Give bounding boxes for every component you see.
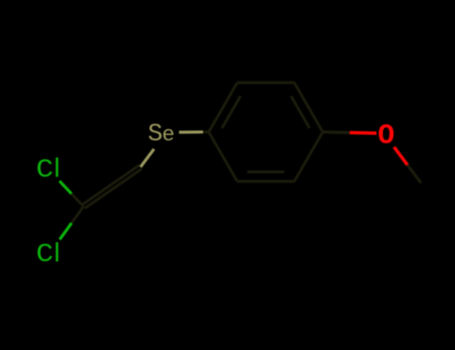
ring inner double line C5-C6 xyxy=(291,96,310,128)
double bond C1=C2 line B xyxy=(82,165,139,205)
double bond C1=C2 line A xyxy=(85,169,142,209)
ring inner double line C7-C8 xyxy=(247,171,284,174)
bond O-C9 methyl half (dark) xyxy=(408,165,422,183)
atom label Cl1: l glyph (plain bar) xyxy=(56,158,58,177)
ring edge C8-C3 (lower-left) xyxy=(209,132,238,181)
bond C2-Se (olive, full) xyxy=(141,149,155,167)
svg-text:e: e xyxy=(162,124,175,147)
svg-text:C: C xyxy=(36,154,54,184)
bond C1-Cl1 chlorine half (green) xyxy=(60,181,72,194)
bond Se-C3 carbon stub (dark) xyxy=(203,131,209,134)
ring edge C6-C7 (lower-right) xyxy=(294,132,323,181)
ring inner double line C3-C4 xyxy=(222,96,241,128)
svg-text:C: C xyxy=(36,239,54,269)
ring edge C4-C5 (top) xyxy=(237,81,294,84)
bond C6-O oxygen half (red) xyxy=(350,131,377,135)
svg-text:O: O xyxy=(378,121,395,152)
svg-text:S: S xyxy=(148,119,163,148)
bond C6-O carbon half (dark) xyxy=(323,131,350,135)
ring edge C7-C8 (bottom) xyxy=(237,180,294,183)
bond C1-Cl1 carbon half (dark) xyxy=(72,194,84,207)
ring edge C3-C4 (upper-left) xyxy=(209,83,238,132)
bond C1-Cl2 carbon half (dark) xyxy=(72,207,84,224)
bond C1-Cl2 chlorine half (green) xyxy=(60,223,72,240)
bond Se-C3 selenium part (olive) xyxy=(179,131,203,134)
ring edge C5-C6 (upper-right) xyxy=(294,83,323,132)
atom label Cl2: l glyph (plain bar) xyxy=(56,242,58,261)
bond O-C9 oxygen half (red) xyxy=(394,147,408,165)
